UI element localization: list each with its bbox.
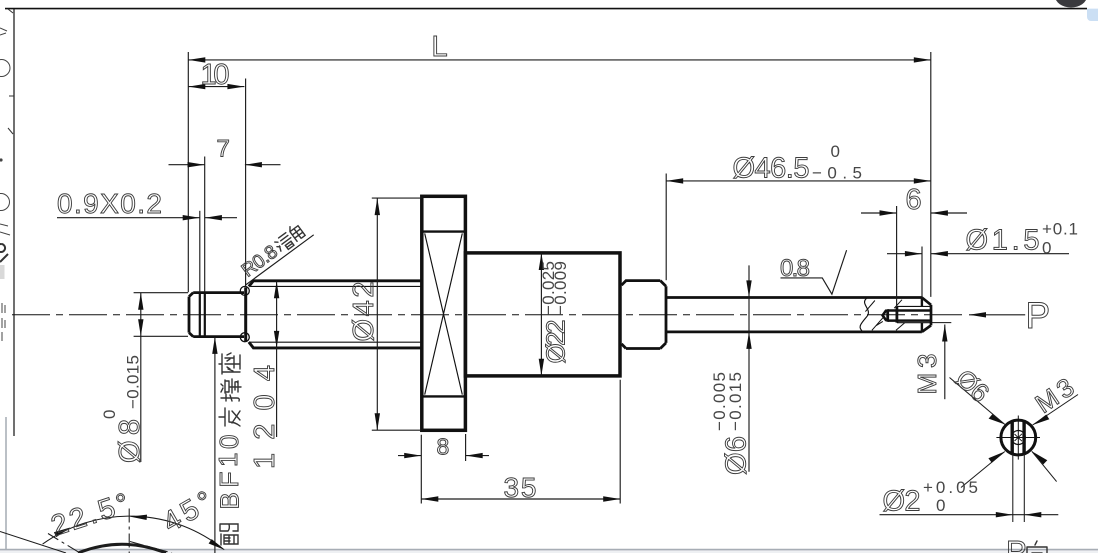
arrow 7 right: [245, 162, 262, 167]
break squiggle: [860, 298, 868, 332]
dimension L line: [188, 59, 931, 61]
dimension 10 line: [188, 86, 244, 88]
Ø6 diagonal leader upper-left: [950, 378, 1005, 425]
arrow 0.9 left: [183, 215, 200, 220]
arrow Ø42 bottom: [375, 413, 380, 430]
journal shaft Ø6: [666, 298, 922, 332]
svg-text:B: B: [215, 492, 245, 509]
arrow 1204 bottom: [274, 331, 279, 348]
arrow L right: [914, 57, 931, 62]
Ø6 journal dimension line: [748, 265, 750, 471]
svg-text:+0.1: +0.1: [1042, 220, 1078, 239]
45 degree dimension arc: [43, 516, 224, 549]
arrow P leader: [969, 312, 986, 317]
arrow Ø22 bottom: [539, 359, 544, 376]
END VIEW P: [996, 416, 1040, 460]
extension line groove left: [199, 211, 201, 292]
M3 diagonal leader upper-right: [1033, 395, 1078, 426]
svg-text:−0.015: −0.015: [726, 372, 745, 431]
svg-text:35: 35: [504, 472, 537, 503]
arrow Ø1.5 left: [905, 251, 922, 256]
svg-text:0: 0: [1042, 239, 1051, 258]
arrow Ø6 at circle lower-right: [1032, 451, 1048, 464]
arrow Ø2 right: [1024, 512, 1041, 517]
arrow Ø42 top: [375, 198, 380, 215]
fragment dot: [0, 158, 3, 161]
end view slot bars: [1012, 422, 1024, 454]
end view outer circle Ø6: [1001, 420, 1036, 455]
B view circle arc thick: [78, 544, 166, 553]
arrow Ø46.5 right: [914, 178, 931, 183]
flange cross X: [425, 233, 463, 394]
arrow 6 right: [931, 210, 948, 215]
stub circlip groove edges: [199, 293, 201, 337]
left grey border: [5, 417, 7, 549]
M3 leader vertical: [944, 325, 946, 400]
arrow BF10 leader: [212, 337, 217, 354]
vertical label column: char 座: [219, 353, 240, 374]
arrow 7 left: [188, 162, 205, 167]
M3 thread depth bar: [896, 306, 899, 322]
dimension 35 extension lines: [421, 380, 620, 504]
arrow 45 arc right end: [209, 539, 225, 550]
arrow Ø22 top: [539, 253, 544, 270]
1204 dimension line: [276, 281, 278, 437]
arrow Ø8 bottom: [138, 319, 143, 336]
Ø42 extension lines: [372, 198, 422, 430]
M3 diagonal leader lower-left: [961, 452, 1005, 488]
arrow 0.9 right: [205, 215, 222, 220]
arrow 8 left: [404, 453, 421, 458]
relief radius R0.8 bottom: [240, 333, 249, 342]
radial line solid: [0, 532, 66, 553]
ARROWHEADS main: [138, 57, 986, 502]
Ø22 dimension line: [540, 253, 542, 376]
LEFT EDGE fragments of cropped view: [0, 9, 14, 341]
arrow M3 leader: [942, 325, 947, 342]
arrow Ø6 at circle upper-left: [989, 414, 1005, 424]
vertical label column: char 撑: [221, 379, 241, 401]
dimension 35 line: [421, 498, 620, 500]
dimension 6 line: [861, 212, 967, 214]
svg-text:L: L: [432, 31, 448, 63]
P view leader: [969, 314, 1025, 316]
svg-text:+0.05: +0.05: [923, 478, 978, 497]
vertical label column: char 配: [220, 524, 238, 545]
flange inner lines: [422, 232, 466, 397]
shaft end chamfers and face: [922, 298, 931, 332]
Ø8 extension lines: [134, 293, 188, 337]
Ø8 dimension line: [140, 293, 142, 462]
fragment marks: [0, 224, 10, 235]
shoulder face: [244, 287, 247, 342]
arrow 35 left: [421, 496, 438, 501]
extension line shoulder: [245, 79, 247, 287]
Ø46.5 extension line: [665, 174, 667, 281]
svg-text:0: 0: [100, 410, 119, 419]
svg-text:6: 6: [906, 184, 922, 216]
arrow Ø6 top: [746, 280, 751, 297]
arrow 45 arc at apex: [130, 515, 147, 520]
arrow 22.5 arc left: [54, 527, 71, 537]
dimension 7 line: [169, 164, 281, 166]
extension line shaft end face: [930, 52, 932, 297]
Ø2 extension lines: [1013, 454, 1025, 522]
extension line left end face: [187, 52, 189, 292]
dimension 6 extension line: [896, 206, 898, 306]
arrow 35 right: [603, 496, 620, 501]
relief radius R0.8 top: [240, 286, 249, 295]
svg-text:Ø1.5: Ø1.5: [966, 225, 1040, 257]
Ø1.5 extension line: [921, 247, 923, 298]
arrow Ø1.5 right: [931, 251, 948, 256]
fragment vertical text bits: [2, 303, 5, 341]
svg-text:8: 8: [437, 434, 450, 460]
svg-text:0: 0: [214, 435, 244, 449]
arrow Ø6 bottom: [746, 332, 751, 349]
Ø6 diagonal leader lower-right: [1032, 451, 1057, 481]
Ø22 block outline: [465, 253, 620, 376]
drill cone: [883, 310, 887, 321]
end view inner circle: [1011, 431, 1025, 445]
arrow 8 right: [466, 453, 483, 458]
svg-text:P: P: [1026, 295, 1051, 336]
end view inner hatch: [1015, 434, 1023, 441]
radial dash-dot vertical: [128, 509, 130, 553]
arrow 10 right: [227, 84, 244, 89]
arrow M3 at circle lower-left: [988, 452, 1004, 463]
end slot edge line: [921, 298, 923, 332]
bottom grey bar: [0, 549, 1098, 553]
end view crosshair vertical: [1017, 416, 1019, 460]
svg-text:0: 0: [936, 496, 945, 515]
vertical label column: char 支: [219, 408, 240, 426]
fragment circle glyph: [0, 60, 10, 77]
svg-text:Ø42: Ø42: [348, 282, 380, 342]
svg-text:0.8: 0.8: [780, 255, 810, 282]
svg-text:10: 10: [201, 59, 230, 91]
ANGULAR DIMS bottom-left: [0, 509, 224, 553]
BF10 leader line: [214, 337, 216, 553]
fragment diameter glyph: [0, 194, 10, 211]
radial dash-dot lower-left: [48, 534, 80, 553]
char 清 of R0.8清角 (rotated): [273, 232, 295, 254]
svg-text:−0.015: −0.015: [124, 355, 143, 409]
flange outline: [422, 196, 466, 430]
Ø2 dimension line: [880, 514, 1059, 516]
svg-text:P: P: [1006, 534, 1027, 553]
arrow Ø2 left: [996, 512, 1013, 517]
roughness symbol: [781, 250, 847, 294]
section hatch lines: [865, 300, 904, 331]
dimension 0.9X0.2 line: [57, 217, 237, 219]
stub Ø8 outline: [189, 293, 244, 337]
svg-text:0: 0: [831, 142, 840, 161]
svg-text:Ø46.5: Ø46.5: [733, 153, 810, 185]
screw section Ø12 outline: [249, 281, 421, 348]
svg-text:F: F: [214, 472, 244, 488]
arrow 1204 top: [274, 281, 279, 298]
fragment 5deg text mark: [0, 28, 7, 35]
svg-text:Ø8: Ø8: [114, 419, 146, 463]
svg-text:Ø6: Ø6: [721, 436, 753, 475]
centerline main axis: [12, 314, 962, 316]
fragment rotated glyphs: [0, 244, 8, 262]
Ø42 dimension line: [376, 198, 378, 430]
char 向 of P向 (clipped at bottom): [1027, 541, 1047, 553]
Ø1.5 dimension line: [887, 253, 1069, 255]
arrow M3 at circle upper-right: [1033, 415, 1050, 426]
M3 tapped hole major thin lines: [897, 306, 931, 322]
blue tab right edge: [1087, 9, 1098, 21]
hole bottom extension for M3 leader: [932, 322, 952, 324]
thread section outline: [622, 281, 667, 349]
arrow 6 left: [880, 210, 897, 215]
arrow 10 left: [188, 84, 205, 89]
arrow Ø8 top: [138, 293, 143, 310]
svg-text:M3: M3: [912, 354, 942, 395]
char 角 of R0.8清角 (rotated): [288, 223, 306, 242]
R0.8 leader line: [245, 235, 313, 285]
browser top border line: [5, 8, 1087, 10]
M3 tapped hole minor lines: [888, 311, 931, 321]
svg-text:Ø2: Ø2: [883, 486, 921, 518]
svg-text:1: 1: [213, 453, 243, 467]
arrow Ø46.5 left: [666, 178, 683, 183]
fragment tick top: [8, 9, 13, 13]
dimension 8 extension line right: [465, 434, 467, 461]
extension line groove right: [204, 157, 206, 293]
fragment grey box: [0, 265, 5, 279]
svg-text:−0.009: −0.009: [551, 261, 570, 315]
fragment tick2: [8, 128, 13, 134]
end view crosshair horizontal: [996, 437, 1040, 439]
svg-text:7: 7: [217, 136, 230, 163]
radial dash-dot lower-right: [130, 542, 172, 553]
dimension 8 line: [398, 455, 489, 457]
Ø46.5 dimension line: [666, 180, 931, 182]
svg-text:Ø22: Ø22: [541, 320, 571, 364]
dark knob top-right: [1055, 0, 1087, 8]
fragment tick: [9, 95, 14, 97]
screw thread root lines: [251, 286, 422, 342]
arrow L left: [188, 57, 205, 62]
left sheet border black: [13, 9, 15, 436]
pilot hole end bar: [886, 309, 889, 322]
